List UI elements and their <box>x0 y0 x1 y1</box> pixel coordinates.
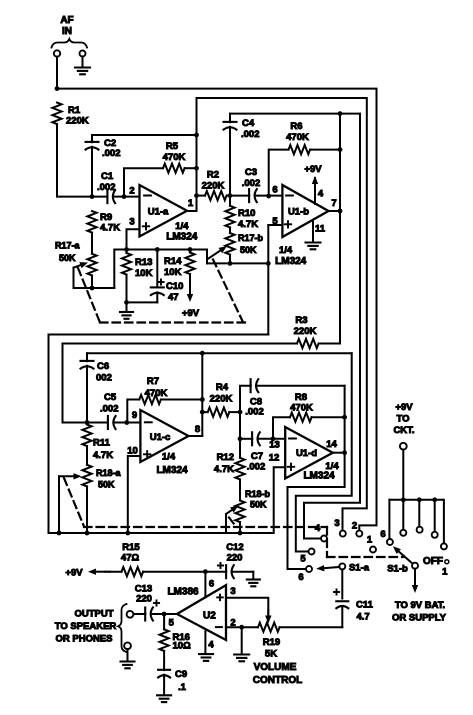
svg-text:+9V: +9V <box>395 402 413 413</box>
svg-text:TO 9V BAT.: TO 9V BAT. <box>395 600 445 611</box>
svg-text:R4: R4 <box>216 382 229 393</box>
svg-text:R18-a: R18-a <box>96 468 122 478</box>
svg-text:CKT.: CKT. <box>393 425 414 436</box>
svg-text:2: 2 <box>352 521 357 532</box>
svg-text:4.7K: 4.7K <box>214 464 234 475</box>
svg-text:6: 6 <box>298 572 303 583</box>
svg-text:1: 1 <box>188 198 194 209</box>
svg-text:U1-c: U1-c <box>150 432 171 443</box>
svg-text:R6: R6 <box>290 121 302 132</box>
svg-text:002: 002 <box>96 373 112 384</box>
svg-text:1/4: 1/4 <box>162 452 176 463</box>
svg-text:4.7: 4.7 <box>357 612 370 623</box>
svg-text:R1: R1 <box>68 105 81 116</box>
svg-text:8: 8 <box>195 424 200 435</box>
svg-text:TO: TO <box>396 414 409 425</box>
svg-text:U2: U2 <box>203 610 216 621</box>
svg-text:50K: 50K <box>98 480 115 490</box>
svg-text:3: 3 <box>129 217 134 228</box>
svg-text:IN: IN <box>62 26 72 37</box>
svg-text:C10: C10 <box>166 281 183 292</box>
svg-text:OR PHONES: OR PHONES <box>55 634 112 645</box>
svg-text:S1-b: S1-b <box>387 564 408 575</box>
svg-text:7: 7 <box>331 198 336 209</box>
svg-text:14: 14 <box>326 439 337 450</box>
svg-text:C3: C3 <box>245 167 257 178</box>
svg-text:LM324: LM324 <box>303 471 335 482</box>
svg-text:10: 10 <box>127 446 138 457</box>
svg-text:50K: 50K <box>240 245 257 255</box>
svg-text:11: 11 <box>315 224 326 235</box>
svg-text:220K: 220K <box>66 116 89 127</box>
svg-text:R2: R2 <box>207 170 219 181</box>
svg-text:R18-b: R18-b <box>245 489 271 499</box>
svg-text:5K: 5K <box>265 649 277 660</box>
svg-text:R19: R19 <box>263 637 280 648</box>
svg-text:S1-a: S1-a <box>349 563 370 574</box>
svg-text:12: 12 <box>269 453 280 464</box>
svg-text:.002: .002 <box>247 462 266 473</box>
svg-text:R7: R7 <box>147 376 159 387</box>
svg-text:4.7K: 4.7K <box>93 450 113 461</box>
svg-text:10Ω: 10Ω <box>173 641 192 652</box>
svg-text:.002: .002 <box>242 178 261 189</box>
svg-text:VOLUME: VOLUME <box>254 662 297 673</box>
svg-text:6: 6 <box>209 579 214 590</box>
svg-text:R12: R12 <box>217 452 234 463</box>
svg-text:R3: R3 <box>295 315 307 326</box>
svg-text:6: 6 <box>380 529 385 540</box>
svg-text:10K: 10K <box>135 268 153 279</box>
svg-text:3: 3 <box>230 586 235 597</box>
svg-text:50K: 50K <box>250 500 267 510</box>
svg-text:220: 220 <box>227 553 243 564</box>
svg-text:AF: AF <box>60 15 73 26</box>
svg-text:OUTPUT: OUTPUT <box>74 609 113 620</box>
svg-text:470K: 470K <box>163 152 186 163</box>
svg-text:U1-b: U1-b <box>288 207 309 218</box>
svg-text:R15: R15 <box>122 542 140 553</box>
svg-text:13: 13 <box>269 440 280 451</box>
svg-text:LM324: LM324 <box>275 256 307 267</box>
svg-text:C12: C12 <box>226 542 243 553</box>
svg-text:R17-a: R17-a <box>55 241 81 251</box>
svg-text:.002: .002 <box>97 182 116 193</box>
svg-text:220K: 220K <box>202 181 225 192</box>
svg-text:C9: C9 <box>175 669 187 680</box>
svg-text:+9V: +9V <box>182 308 200 319</box>
svg-text:4: 4 <box>315 523 321 534</box>
svg-text:9: 9 <box>132 410 137 421</box>
svg-text:R13: R13 <box>135 257 152 268</box>
svg-text:1: 1 <box>442 567 448 578</box>
svg-text:.1: .1 <box>178 682 187 693</box>
svg-text:C6: C6 <box>97 361 109 372</box>
svg-text:3: 3 <box>334 518 339 529</box>
svg-text:R10: R10 <box>238 208 255 219</box>
svg-text:10K: 10K <box>164 267 182 278</box>
svg-text:4.7K: 4.7K <box>100 223 120 234</box>
svg-text:LM324: LM324 <box>156 465 188 476</box>
svg-text:OR SUPPLY: OR SUPPLY <box>392 613 447 624</box>
svg-text:5: 5 <box>300 554 306 565</box>
svg-text:C1: C1 <box>101 171 114 182</box>
svg-text:220K: 220K <box>294 326 317 337</box>
svg-text:5: 5 <box>169 618 175 629</box>
svg-text:+9V: +9V <box>304 164 322 175</box>
svg-text:.002: .002 <box>241 129 260 140</box>
svg-text:4: 4 <box>318 189 324 200</box>
svg-text:470K: 470K <box>286 132 309 143</box>
svg-text:4.7K: 4.7K <box>238 219 258 230</box>
svg-text:6: 6 <box>272 185 277 196</box>
svg-text:220: 220 <box>136 594 152 605</box>
svg-text:1: 1 <box>367 535 373 546</box>
svg-text:47Ω: 47Ω <box>121 553 140 564</box>
svg-text:+9V: +9V <box>65 568 83 579</box>
svg-text:C4: C4 <box>242 118 255 129</box>
svg-text:220K: 220K <box>210 394 233 405</box>
svg-text:LM386: LM386 <box>167 587 199 598</box>
svg-text:2: 2 <box>129 186 134 197</box>
svg-text:R17-b: R17-b <box>238 233 264 243</box>
svg-text:U1-a: U1-a <box>148 207 169 218</box>
svg-text:470K: 470K <box>145 388 168 399</box>
svg-text:R14: R14 <box>164 256 182 267</box>
svg-text:R9: R9 <box>100 212 112 223</box>
svg-text:R11: R11 <box>93 438 111 449</box>
svg-text:R8: R8 <box>295 392 307 403</box>
svg-text:C5: C5 <box>104 392 117 403</box>
svg-text:U1-d: U1-d <box>296 448 317 459</box>
svg-text:R5: R5 <box>166 141 179 152</box>
svg-text:.002: .002 <box>245 407 264 418</box>
svg-text:C7: C7 <box>251 451 263 462</box>
svg-text:C11: C11 <box>356 600 374 611</box>
svg-text:50K: 50K <box>59 253 76 263</box>
svg-text:LM324: LM324 <box>166 232 198 243</box>
svg-text:.002: .002 <box>102 148 121 159</box>
svg-text:.002: .002 <box>100 404 119 415</box>
svg-text:470K: 470K <box>290 403 313 414</box>
svg-text:CONTROL: CONTROL <box>253 675 302 686</box>
svg-text:OFF: OFF <box>423 556 443 567</box>
svg-text:1/4: 1/4 <box>279 245 293 256</box>
svg-text:4: 4 <box>208 640 214 651</box>
svg-text:47: 47 <box>168 292 179 303</box>
svg-text:1/4: 1/4 <box>175 221 189 232</box>
svg-text:TO SPEAKER: TO SPEAKER <box>55 621 117 632</box>
